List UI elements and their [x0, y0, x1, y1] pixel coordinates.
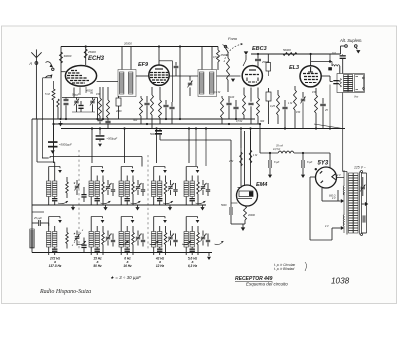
- svg-text:50µµF: 50µµF: [72, 94, 80, 97]
- svg-text:Fono: Fono: [228, 36, 238, 41]
- svg-text:4 V: 4 V: [332, 197, 336, 200]
- svg-text:★ = 3 ÷ 30 µµF: ★ = 3 ÷ 30 µµF: [110, 275, 141, 280]
- svg-text:30000: 30000: [64, 54, 72, 58]
- svg-text:Alt. Suplem.: Alt. Suplem.: [339, 38, 363, 43]
- svg-text:50 Hz: 50 Hz: [93, 264, 102, 268]
- svg-text:20000: 20000: [123, 42, 132, 46]
- svg-text:25000: 25000: [87, 50, 96, 54]
- svg-text:41,5 Ω: 41,5 Ω: [273, 148, 280, 151]
- svg-text:150: 150: [296, 111, 301, 114]
- svg-text:4 V: 4 V: [325, 225, 329, 228]
- svg-text:0,5 M: 0,5 M: [236, 120, 243, 123]
- svg-text:≈500µµF: ≈500µµF: [107, 137, 118, 141]
- svg-text:0,25: 0,25: [270, 105, 275, 108]
- svg-text:16 Hz: 16 Hz: [123, 264, 132, 268]
- svg-text:25: 25: [324, 109, 328, 112]
- svg-text:Esquema del circuito: Esquema del circuito: [246, 282, 288, 287]
- svg-text:137.5 Hz: 137.5 Hz: [49, 264, 62, 268]
- svg-text:6,3 Hz: 6,3 Hz: [188, 264, 198, 268]
- svg-text:EL3: EL3: [289, 65, 299, 71]
- svg-text:50000: 50000: [283, 48, 291, 52]
- svg-text:150: 150: [312, 91, 317, 94]
- svg-text:125 V ~: 125 V ~: [354, 166, 366, 170]
- svg-text:150: 150: [96, 93, 101, 96]
- svg-text:ECH3: ECH3: [88, 56, 105, 62]
- svg-text:EBC3: EBC3: [252, 46, 267, 52]
- svg-text:5000: 5000: [150, 133, 156, 136]
- svg-text:300: 300: [260, 120, 265, 123]
- svg-text:110: 110: [332, 52, 336, 55]
- svg-text:0,5 M: 0,5 M: [213, 56, 220, 59]
- svg-text:Radio Hispano-Suiza: Radio Hispano-Suiza: [39, 289, 91, 295]
- svg-text:EF9: EF9: [138, 62, 149, 68]
- svg-text:25000: 25000: [220, 53, 229, 57]
- svg-text:25 µµF: 25 µµF: [33, 217, 42, 220]
- svg-text:40000: 40000: [86, 90, 94, 93]
- svg-text:2000: 2000: [115, 110, 122, 113]
- svg-text:100: 100: [230, 96, 235, 99]
- svg-text:5000: 5000: [221, 204, 227, 207]
- svg-text:A: A: [28, 61, 32, 66]
- svg-text:8 µF: 8 µF: [307, 160, 313, 164]
- svg-text:20000: 20000: [247, 214, 256, 217]
- svg-text:≈5000µµF: ≈5000µµF: [59, 143, 72, 147]
- svg-text:t. p. ir Blindad: t. p. ir Blindad: [274, 267, 294, 271]
- svg-text:5 M: 5 M: [45, 92, 50, 96]
- svg-text:EM4: EM4: [256, 182, 267, 188]
- svg-text:4 V: 4 V: [337, 174, 341, 177]
- svg-text:0,1 M: 0,1 M: [214, 91, 221, 94]
- svg-text:5Y3: 5Y3: [318, 161, 329, 167]
- svg-text:12 Hz: 12 Hz: [156, 264, 165, 268]
- svg-text:1038: 1038: [331, 277, 350, 286]
- svg-text:8 µF: 8 µF: [274, 160, 280, 164]
